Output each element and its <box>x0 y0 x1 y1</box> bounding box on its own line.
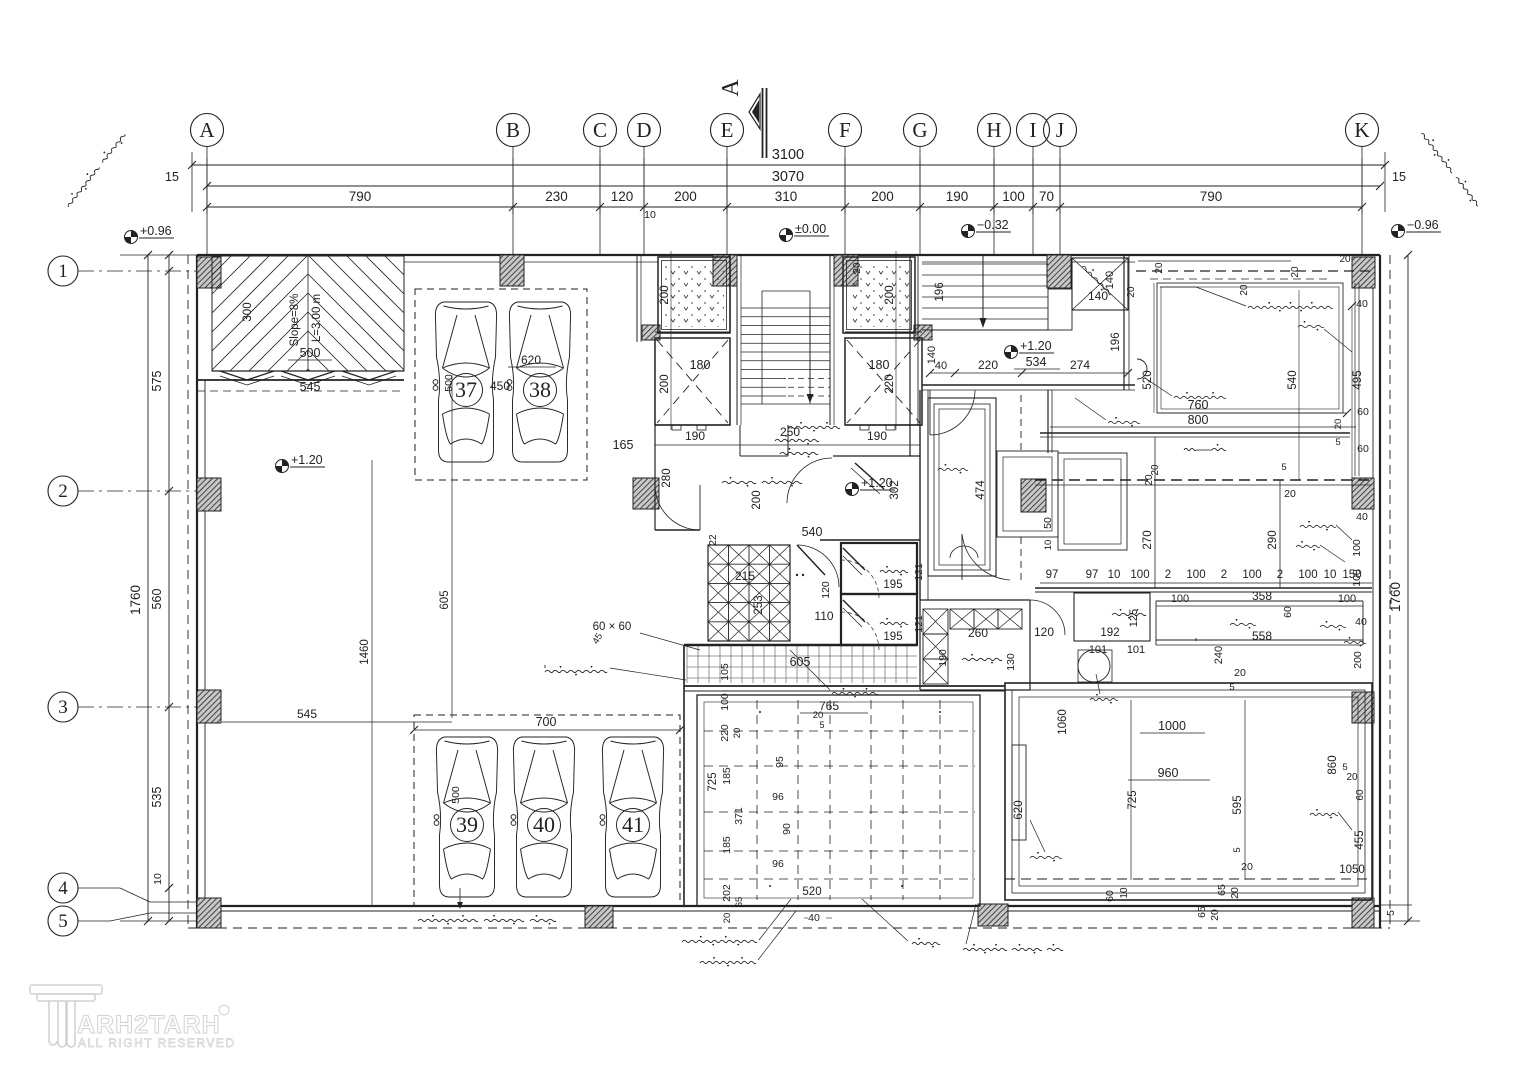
landing dims <box>930 372 1128 374</box>
svg-text:200: 200 <box>1352 651 1364 669</box>
svg-text:790: 790 <box>1200 189 1223 204</box>
outer boundary dashed <box>187 255 189 928</box>
svg-text:1460: 1460 <box>359 639 371 665</box>
svg-text:L=3.00 m: L=3.00 m <box>311 294 323 342</box>
svg-text:1000: 1000 <box>1158 719 1186 733</box>
lobby corridor wall <box>1123 255 1125 390</box>
fire door leaf <box>855 463 884 489</box>
dim 545 row3 <box>222 721 452 723</box>
svg-text:185: 185 <box>721 767 733 785</box>
lobby bottom wall <box>1040 432 1350 434</box>
svg-text:+1.20: +1.20 <box>291 453 323 467</box>
svg-text:725: 725 <box>1127 790 1139 809</box>
column A5 <box>197 898 221 928</box>
ramp bottom wall <box>212 370 404 372</box>
br room walls <box>1005 683 1372 900</box>
storage lockers X-grid <box>708 545 790 641</box>
note: divarkoob <box>1108 421 1140 423</box>
svg-text:101: 101 <box>1127 644 1145 656</box>
svg-text:240: 240 <box>1213 646 1225 664</box>
svg-text:20: 20 <box>1333 419 1344 430</box>
svg-text:G: G <box>912 118 927 142</box>
svg-text:310: 310 <box>775 189 798 204</box>
svg-text:1060: 1060 <box>1057 709 1069 735</box>
svg-text:190: 190 <box>946 189 969 204</box>
car 39 <box>434 737 498 897</box>
svg-text:D: D <box>636 118 651 142</box>
svg-text:540: 540 <box>1287 370 1299 389</box>
svg-text:540: 540 <box>802 525 823 539</box>
svg-text:100: 100 <box>1002 189 1025 204</box>
svg-text:371: 371 <box>733 807 745 825</box>
note mirror wall <box>545 670 607 672</box>
mirror wall note top <box>544 665 546 667</box>
grid axis E <box>711 114 744 256</box>
dim 700 line <box>414 729 680 731</box>
gym dashed ceiling grid <box>704 700 975 900</box>
ramp chevrons <box>220 371 274 380</box>
svg-text:A: A <box>718 79 744 97</box>
svg-text:15: 15 <box>1392 170 1406 184</box>
svg-text:860: 860 <box>1327 755 1339 774</box>
car 37 <box>433 302 497 462</box>
svg-text:97: 97 <box>1046 569 1059 581</box>
svg-text:20: 20 <box>1241 861 1253 873</box>
svg-text:230: 230 <box>545 189 568 204</box>
svg-text:274: 274 <box>1070 358 1090 372</box>
svg-text:200: 200 <box>871 189 894 204</box>
hall dim line 190 250 190 <box>655 444 920 446</box>
grid axis row 3 <box>48 692 197 722</box>
car 40 <box>511 737 574 897</box>
bar counter lines <box>1156 600 1363 602</box>
door arc 474 room top <box>930 390 975 435</box>
grid axis J <box>1044 114 1077 256</box>
svg-text:130: 130 <box>1005 653 1017 671</box>
svg-text:300: 300 <box>242 302 254 321</box>
svg-text:60: 60 <box>1282 606 1294 618</box>
svg-text:J: J <box>1056 118 1064 142</box>
leader: grooved stone note <box>790 650 830 690</box>
svg-text:1: 1 <box>58 261 68 282</box>
svg-text:I: I <box>1030 118 1037 142</box>
counter note miz <box>1195 638 1197 640</box>
lobby top dashed strip <box>1136 270 1372 272</box>
svg-text:358: 358 <box>1252 589 1272 603</box>
svg-text:2: 2 <box>1277 569 1283 581</box>
svg-text:195: 195 <box>883 631 902 643</box>
grid axis G <box>904 114 937 256</box>
svg-text:±0.00: ±0.00 <box>795 222 826 236</box>
lobby lower dashed <box>1035 479 1372 481</box>
svg-text:620: 620 <box>521 353 541 367</box>
changing room walls <box>920 599 1030 601</box>
svg-text:2: 2 <box>1221 569 1227 581</box>
svg-text:100: 100 <box>1171 593 1189 605</box>
sculpture note <box>1090 698 1118 700</box>
svg-text:260: 260 <box>968 626 988 640</box>
svg-text:20: 20 <box>852 262 863 274</box>
svg-text:500: 500 <box>300 346 321 360</box>
elevator door stubs <box>672 425 681 430</box>
svg-text:37: 37 <box>455 377 477 402</box>
svg-text:20: 20 <box>1154 262 1165 274</box>
wall outer left <box>196 255 198 928</box>
svg-text:−0.96: −0.96 <box>1407 218 1439 232</box>
svg-text:200: 200 <box>659 285 671 304</box>
grid axis row 4 <box>48 873 78 903</box>
svg-text:220: 220 <box>978 358 998 372</box>
svg-text:100: 100 <box>719 693 731 711</box>
toilet room 2 <box>841 594 917 645</box>
column I-top <box>1047 255 1071 288</box>
grid axis B <box>497 114 530 256</box>
svg-text:192: 192 <box>1100 627 1119 639</box>
svg-text:38: 38 <box>529 377 551 402</box>
svg-text:4: 4 <box>58 878 68 899</box>
svg-text:20: 20 <box>1234 667 1246 679</box>
elevator R-top (machine/dotted shaft) <box>843 257 915 333</box>
dimension chain 3070 <box>207 185 1380 187</box>
svg-text:725: 725 <box>707 772 719 791</box>
svg-text:180: 180 <box>869 358 890 372</box>
svg-text:790: 790 <box>349 189 372 204</box>
shaft west wall <box>636 255 638 342</box>
corridor wall G lower <box>919 390 921 600</box>
gym inner solid offsets <box>704 702 973 898</box>
svg-text:180: 180 <box>690 358 711 372</box>
svg-text:20: 20 <box>1126 286 1137 298</box>
svg-text:50: 50 <box>1042 517 1054 529</box>
svg-text:40: 40 <box>1356 298 1368 310</box>
section marker A <box>762 88 764 158</box>
svg-text:100: 100 <box>1338 593 1356 605</box>
column D-up <box>642 325 660 340</box>
dimension chain 3100 <box>192 164 1385 166</box>
svg-text:100: 100 <box>1351 539 1363 557</box>
lobby label <box>1184 448 1196 450</box>
svg-text:575: 575 <box>150 371 164 392</box>
svg-text:F: F <box>839 118 851 142</box>
svg-text:150: 150 <box>1342 569 1361 581</box>
svg-text:97: 97 <box>1086 569 1099 581</box>
svg-text:10: 10 <box>1043 540 1054 551</box>
svg-text:22: 22 <box>708 534 719 546</box>
svg-text:700: 700 <box>536 715 557 729</box>
lockers X horizontal <box>950 609 974 629</box>
lobby right inner border <box>1354 283 1356 476</box>
column A3 <box>197 690 221 723</box>
svg-text:10: 10 <box>152 873 164 885</box>
grid axis H <box>978 114 1011 256</box>
svg-text:ALL RIGHT RESERVED: ALL RIGHT RESERVED <box>78 1036 236 1050</box>
svg-text:10: 10 <box>1108 569 1121 581</box>
persian note: fire wall <box>722 481 756 483</box>
svg-text:960: 960 <box>1158 766 1179 780</box>
svg-text:190: 190 <box>937 649 949 667</box>
lobby wall niche semicircle <box>1137 359 1147 379</box>
svg-text:196: 196 <box>1110 332 1122 351</box>
svg-text:−0.32: −0.32 <box>977 218 1009 232</box>
svg-text:302: 302 <box>889 480 901 499</box>
svg-text:215: 215 <box>735 569 755 583</box>
level marker −0.96 <box>1392 225 1405 238</box>
svg-text:520: 520 <box>802 886 821 898</box>
svg-text:20: 20 <box>1209 909 1221 921</box>
svg-text:120: 120 <box>820 581 832 599</box>
lobby inner parquet border <box>1157 283 1343 413</box>
fire door arcs <box>655 485 700 530</box>
grid axis A <box>191 114 224 256</box>
svg-text:121: 121 <box>913 563 925 581</box>
svg-text:125: 125 <box>1128 609 1140 627</box>
column D-mid <box>633 478 659 509</box>
svg-text:C: C <box>593 118 607 142</box>
car 38 <box>507 302 570 462</box>
elevator L-bottom (X shaft) <box>655 338 730 425</box>
dimension chain right 1760 <box>1407 255 1409 921</box>
corridor hall walls <box>654 425 656 530</box>
column I2 <box>1021 479 1046 512</box>
svg-text:+0.96: +0.96 <box>140 224 172 238</box>
svg-text:E: E <box>721 118 734 142</box>
svg-text:20: 20 <box>1290 266 1301 278</box>
svg-text:200: 200 <box>751 490 763 509</box>
svg-text:60: 60 <box>1357 443 1369 455</box>
svg-text:495: 495 <box>1352 370 1364 389</box>
svg-text:10: 10 <box>1324 569 1337 581</box>
staircase walls <box>729 255 731 332</box>
level marker −0.32 <box>962 225 975 238</box>
svg-text:60: 60 <box>1355 789 1366 801</box>
gym walls <box>683 645 685 906</box>
staircase right <box>922 264 1048 319</box>
level marker +1.20 stair landing <box>1005 346 1018 359</box>
column bottom-1 <box>585 906 613 928</box>
svg-text:65: 65 <box>1196 906 1208 918</box>
guard rail note <box>418 919 478 921</box>
grid axis D <box>628 114 661 256</box>
lobby interior dims <box>1153 283 1155 413</box>
svg-text:100: 100 <box>1298 569 1317 581</box>
wall outer bottom <box>197 905 1380 907</box>
toilet room 1 <box>841 543 917 594</box>
svg-text:ARH2TARH: ARH2TARH <box>77 1011 221 1039</box>
svg-text:3100: 3100 <box>772 147 804 163</box>
svg-text:474: 474 <box>975 480 987 500</box>
note darz enqeta (left) <box>64 131 128 209</box>
dim 605 vertical <box>451 375 453 718</box>
grid axis row 5 <box>48 906 78 936</box>
svg-text:450: 450 <box>490 379 510 393</box>
column K1 <box>1352 257 1375 288</box>
svg-text:185: 185 <box>721 836 733 854</box>
svg-text:595: 595 <box>1232 795 1244 814</box>
gym labels with leaders <box>682 940 757 942</box>
column K5 <box>1352 898 1374 928</box>
lobby dim lines 760/800 <box>1157 412 1347 414</box>
column A1 <box>197 257 221 288</box>
svg-text:500: 500 <box>443 374 455 392</box>
svg-text:250: 250 <box>780 425 800 439</box>
svg-text:5: 5 <box>1385 910 1397 916</box>
corridor bottom wall of elevators <box>655 424 730 426</box>
svg-text:20: 20 <box>722 913 733 924</box>
svg-text:5: 5 <box>819 720 824 730</box>
svg-text:B: B <box>506 118 520 142</box>
svg-text:96: 96 <box>772 858 784 870</box>
stair well rails <box>762 290 810 292</box>
car 41 <box>600 737 664 897</box>
svg-text:Slope=8%: Slope=8% <box>289 294 301 347</box>
svg-text:280: 280 <box>661 468 673 487</box>
wall outer right <box>1379 255 1381 928</box>
svg-text:H: H <box>986 118 1001 142</box>
column B-top <box>500 255 524 286</box>
svg-text:60 × 60: 60 × 60 <box>593 621 632 633</box>
svg-text:40: 40 <box>1355 616 1367 628</box>
grid axis K <box>1346 114 1379 256</box>
landing wall below right stair <box>922 384 1135 386</box>
column K3 <box>1352 692 1374 723</box>
grid axis F <box>829 114 862 256</box>
elevator L-top (machine/dotted shaft) <box>658 257 730 333</box>
column A2 <box>197 478 221 511</box>
svg-text:40: 40 <box>533 812 555 837</box>
dimension chain left 1760 <box>147 255 149 921</box>
svg-text:10: 10 <box>644 209 656 221</box>
svg-text:545: 545 <box>297 707 317 721</box>
dim 1460 vertical <box>371 460 373 906</box>
niche 2 (pedestal) <box>1058 453 1127 550</box>
dim chain 97 97 10 100 ... <box>1040 582 1372 584</box>
svg-text:95: 95 <box>774 756 786 768</box>
wall I dashed <box>1020 395 1022 455</box>
svg-text:5: 5 <box>1342 762 1347 773</box>
level marker +0.96 <box>125 231 138 244</box>
svg-text:100: 100 <box>1242 569 1261 581</box>
console niche <box>1012 745 1026 840</box>
parking boundary top dashed <box>415 289 587 480</box>
svg-text:605: 605 <box>439 590 451 609</box>
bench room walls <box>928 398 996 576</box>
svg-text:100: 100 <box>1130 569 1149 581</box>
tile floor (grooved stone) <box>687 645 917 683</box>
wall outer top <box>197 254 1380 256</box>
column F-top <box>834 255 858 286</box>
svg-text:200: 200 <box>674 189 697 204</box>
svg-text:5: 5 <box>1232 847 1243 852</box>
stair exit door arc <box>787 458 832 503</box>
note: 10cm black stone band <box>1248 306 1333 308</box>
svg-text:3070: 3070 <box>772 169 804 185</box>
column E-top <box>713 255 737 286</box>
svg-text:10: 10 <box>1119 887 1130 899</box>
leader row 5 <box>78 920 110 922</box>
dimension chain segments 790 230 120 200 310 200 190 100 70 790 <box>207 206 1362 208</box>
svg-text:620: 620 <box>1013 800 1025 819</box>
column G-up <box>914 325 932 340</box>
leader row 4 <box>78 887 120 889</box>
vertical partitions below dashed <box>1154 437 1156 588</box>
svg-text:455: 455 <box>1354 830 1366 849</box>
svg-text:100: 100 <box>1186 569 1205 581</box>
grid axis row 1 <box>48 256 197 286</box>
svg-text:140: 140 <box>1088 289 1108 303</box>
svg-text:253: 253 <box>753 595 765 614</box>
svg-text:2: 2 <box>1165 569 1171 581</box>
svg-text:60: 60 <box>1357 406 1369 418</box>
svg-text:A: A <box>199 118 215 142</box>
svg-text:20: 20 <box>1339 254 1351 265</box>
lobby top thin line <box>1138 260 1291 262</box>
toilet door panels <box>843 548 865 570</box>
note: wall sculpture <box>1174 396 1226 398</box>
svg-text:200: 200 <box>884 285 896 304</box>
grid axis I <box>1017 114 1050 256</box>
column bottom-2 <box>978 904 1008 926</box>
wheelchair lift (چاه معلول) <box>1072 258 1128 310</box>
svg-text:3: 3 <box>58 697 68 718</box>
level marker +1.20 garage <box>276 459 289 472</box>
svg-text:200: 200 <box>659 374 671 393</box>
svg-text:40: 40 <box>808 912 820 924</box>
svg-text:534: 534 <box>1026 355 1047 369</box>
svg-text:60: 60 <box>1104 890 1116 902</box>
svg-text:140: 140 <box>926 346 938 364</box>
corridor door arc at storage <box>797 545 839 587</box>
svg-text:41: 41 <box>622 812 644 837</box>
svg-text:65: 65 <box>734 897 745 908</box>
hall right wall segment <box>833 455 920 457</box>
svg-text:5: 5 <box>1335 437 1340 448</box>
persian note: fire-rated self closing door <box>788 426 840 428</box>
wall below lobby <box>1035 587 1372 589</box>
svg-text:2: 2 <box>58 481 68 502</box>
note: bafche top right <box>1298 325 1324 327</box>
svg-text:K: K <box>1354 118 1369 142</box>
svg-text:290: 290 <box>1267 530 1279 549</box>
svg-text:65: 65 <box>1216 884 1228 896</box>
svg-text:270: 270 <box>1142 530 1154 549</box>
svg-text:39: 39 <box>456 812 478 837</box>
svg-text:90: 90 <box>781 823 793 835</box>
svg-text:1050: 1050 <box>1339 864 1365 876</box>
svg-text:120: 120 <box>1034 625 1054 639</box>
svg-text:800: 800 <box>1188 413 1209 427</box>
svg-text:105: 105 <box>719 663 731 681</box>
svg-text:165: 165 <box>613 438 634 452</box>
svg-text:195: 195 <box>883 579 902 591</box>
dimension chain left 575 560 535 10 <box>168 255 170 921</box>
svg-text:96: 96 <box>772 791 784 803</box>
grid axis C <box>584 114 617 256</box>
svg-text:5: 5 <box>58 911 68 932</box>
br room dashed ceiling <box>1005 878 1372 880</box>
svg-text:535: 535 <box>150 787 164 808</box>
svg-text:20: 20 <box>1346 772 1358 783</box>
svg-text:140: 140 <box>1104 271 1116 289</box>
staircase central <box>741 308 830 396</box>
svg-text:15: 15 <box>165 170 179 184</box>
level marker +1.20 hall <box>846 483 859 496</box>
svg-text:20: 20 <box>1229 887 1241 899</box>
svg-text:+1.20: +1.20 <box>1020 339 1052 353</box>
svg-text:70: 70 <box>1039 189 1054 204</box>
svg-text:220: 220 <box>719 724 731 742</box>
bench arc <box>950 546 978 558</box>
svg-text:110: 110 <box>814 609 833 623</box>
